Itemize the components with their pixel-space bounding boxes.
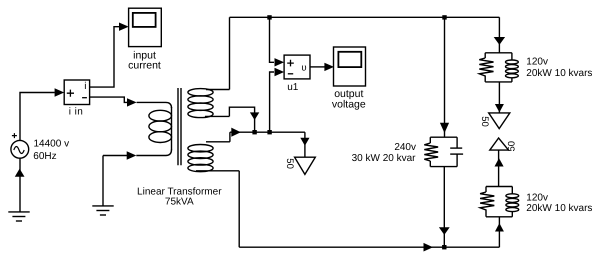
svg-text:14400 v: 14400 v <box>34 139 70 150</box>
gain block 50c <box>490 138 509 150</box>
wire top rail <box>230 16 500 18</box>
value label 120v 20kW 10 kvars top <box>526 56 592 79</box>
junction node D <box>267 130 271 134</box>
svg-text:60Hz: 60Hz <box>33 151 56 162</box>
svg-text:50: 50 <box>507 141 518 152</box>
junction node E <box>442 245 446 249</box>
scope output voltage <box>334 47 366 86</box>
wire winding3 top to mid rail <box>229 132 231 142</box>
wire mid rail to u1 minus <box>270 72 274 132</box>
arrowhead into 240v load <box>440 123 449 133</box>
wire 120v load 1 to gain 50b <box>498 82 500 113</box>
parallel RLC load 120v bottom <box>480 187 519 217</box>
current measurement block i in <box>64 80 89 105</box>
wire top rail down to 240v load <box>444 17 446 137</box>
scope input current <box>129 8 162 46</box>
linear transformer primary winding <box>136 102 171 155</box>
label input current <box>128 49 161 71</box>
wire winding2 bottom to mid node <box>229 107 254 130</box>
svg-text:i: i <box>84 81 86 92</box>
wire ground G2 to transformer port 1- <box>103 155 127 157</box>
arrowhead on bottom rail <box>424 243 434 252</box>
label output voltage <box>332 88 366 110</box>
parallel RLC load 120v top <box>479 53 518 82</box>
AC voltage source Vs <box>11 140 29 158</box>
junction node A <box>267 15 271 19</box>
junction node C <box>252 130 256 134</box>
wire source top to i in input <box>20 93 55 141</box>
wire mid rail to gain 50a <box>304 132 306 157</box>
ground G1 <box>8 212 29 221</box>
wire mid rail <box>230 131 305 133</box>
junction node B <box>442 15 446 19</box>
arrowhead into transformer port 1- <box>127 151 137 159</box>
transformer core <box>178 88 181 165</box>
ground G2 <box>92 156 113 216</box>
transformer secondary winding 3 <box>188 142 239 172</box>
svg-text:75kVA: 75kVA <box>165 197 194 208</box>
source plus sign <box>12 133 17 138</box>
wire winding2 top to top rail <box>229 17 231 89</box>
arrowhead into 120v load 2 bottom <box>495 223 504 231</box>
value label 14400 v 60Hz <box>33 139 69 162</box>
arrowhead into output voltage scope <box>324 63 334 71</box>
wire source bottom to ground <box>19 158 21 212</box>
svg-text:u1: u1 <box>287 82 299 93</box>
wire bottom rail <box>239 246 499 248</box>
transformer secondary winding 2 <box>188 89 230 118</box>
arrowhead into i in <box>55 88 65 96</box>
wire 120v load 2 to gain 50c <box>498 150 500 186</box>
arrowhead into u1 plus <box>275 58 285 66</box>
wire i output to input current scope <box>90 27 120 87</box>
svg-text:240v: 240v <box>394 142 416 153</box>
arrowhead into source bottom <box>15 169 25 177</box>
arrowhead into u1 minus <box>275 68 285 76</box>
svg-text:50: 50 <box>479 116 490 127</box>
svg-text:20kW 10 kvars: 20kW 10 kvars <box>526 203 592 214</box>
wire minus output to transformer <box>90 97 128 102</box>
arrowhead into input current scope <box>119 23 129 31</box>
svg-text:voltage: voltage <box>332 98 366 110</box>
svg-text:20kW 10 kvars: 20kW 10 kvars <box>526 68 592 79</box>
parallel RLC load 240v <box>424 137 463 166</box>
wire u1 output to scope <box>310 66 325 68</box>
value label 240v 30 kW 20 kvar <box>352 142 417 164</box>
svg-text:50: 50 <box>284 158 295 169</box>
gain block 50a <box>295 157 316 174</box>
arrowhead into gain 50a <box>300 138 309 146</box>
arrowhead into mid node from winding2 <box>250 112 259 120</box>
gain block 50b <box>489 113 510 129</box>
svg-text:120v: 120v <box>526 56 548 67</box>
wire 240v load to bottom rail <box>443 167 445 248</box>
svg-text:current: current <box>128 59 161 71</box>
wire top rail to u1 plus <box>270 17 275 62</box>
wire winding3 bottom to bottom rail <box>238 171 240 247</box>
arrowhead into gain 50c <box>495 158 504 166</box>
arrowhead on mid rail <box>231 128 241 137</box>
svg-text:i in: i in <box>69 106 83 117</box>
arrowhead into 120v load 1 <box>494 37 505 45</box>
arrowhead into transformer port 1+ <box>127 98 137 106</box>
wire top rail down to 120v load 1 <box>498 17 500 53</box>
wire bottom rail up to 120v load 2 <box>498 217 500 247</box>
arrowhead into gain 50b <box>495 104 504 112</box>
svg-text:υ: υ <box>301 62 306 73</box>
label Linear Transformer 75kVA <box>137 186 222 207</box>
value label 120v 20kW 10 kvars bottom <box>526 193 592 214</box>
voltage measurement block u1 <box>284 55 310 79</box>
arrowhead into bottom rail node from 240v load <box>439 227 450 235</box>
svg-text:30 kW 20 kvar: 30 kW 20 kvar <box>352 153 417 164</box>
